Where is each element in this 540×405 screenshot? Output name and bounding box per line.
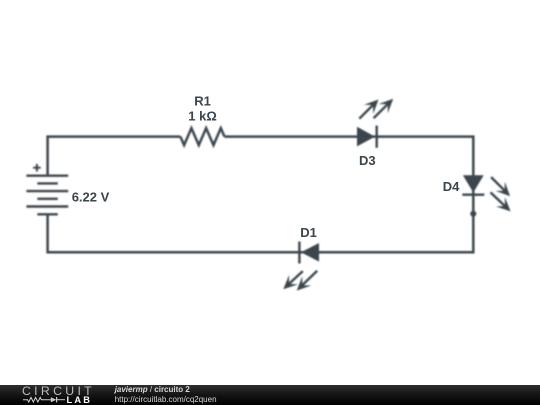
battery V1 plate short 2: [37, 198, 58, 200]
logo mini schematic + LAB: [0, 385, 110, 405]
node junction dot: [470, 211, 476, 217]
LED D1 arrow 2: [297, 271, 318, 291]
battery V1 plate long 3: [26, 205, 68, 207]
battery plus sign: [33, 164, 41, 172]
LED D1 arrow 1: [283, 271, 303, 289]
battery V1 plate short 3: [37, 213, 58, 215]
resistor R1: [180, 128, 224, 145]
LED D4 arrow 1: [491, 177, 510, 196]
LED D3 triangle: [357, 127, 375, 147]
LED D3 arrow 1: [359, 100, 378, 119]
footer bar: [0, 385, 540, 405]
svg-text:6.22 V: 6.22 V: [72, 189, 110, 204]
svg-text:1 kΩ: 1 kΩ: [188, 108, 217, 123]
svg-text:D3: D3: [359, 153, 376, 168]
svg-text:D1: D1: [300, 225, 317, 240]
wire resistor through D3 to right, down through D4, bottom through D1, to battery bottom: [48, 137, 474, 253]
LED D4 triangle: [463, 175, 484, 192]
LED D3 cathode bar: [376, 126, 378, 148]
wire battery top to resistor: [48, 137, 181, 176]
LED D1 cathode bar: [298, 242, 300, 264]
LED D4 arrow 2: [491, 192, 511, 211]
LED D4 cathode bar: [462, 193, 484, 195]
battery V1 plate long 1: [26, 174, 68, 176]
LED D3 arrow 2: [374, 99, 394, 118]
battery V1 plate long 2: [26, 190, 68, 192]
svg-text:R1: R1: [194, 94, 211, 109]
battery V1 plate short 1: [37, 182, 58, 184]
CircuitLab logo CIRCUIT: [22, 387, 95, 395]
svg-text:LAB: LAB: [67, 395, 93, 405]
attribution text: [115, 386, 190, 394]
svg-text:D4: D4: [443, 179, 460, 194]
LED D1 triangle: [301, 243, 319, 262]
